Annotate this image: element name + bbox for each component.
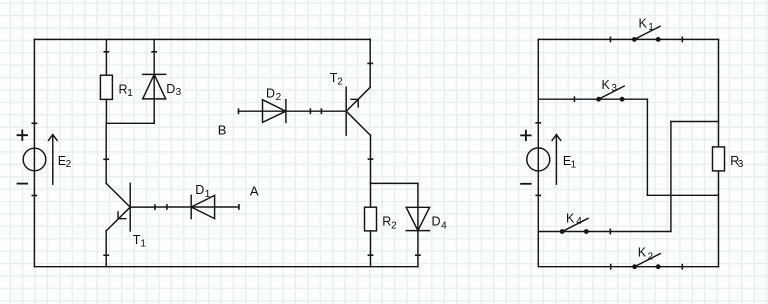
node A	[239, 184, 259, 209]
transistor T2	[330, 63, 373, 159]
resistor R2	[365, 207, 398, 231]
svg-text:4: 4	[441, 220, 447, 231]
svg-text:2: 2	[276, 92, 282, 103]
svg-text:1: 1	[648, 22, 654, 33]
wire T2 collector down	[370, 135, 372, 183]
wire D4 branch	[417, 183, 419, 266]
svg-text:K: K	[602, 78, 611, 92]
diode D1	[191, 183, 214, 218]
wire K4 right up	[670, 122, 672, 232]
wire junction R1-D3	[106, 122, 154, 124]
svg-text:2: 2	[391, 220, 397, 231]
resistor R1	[100, 52, 133, 100]
svg-text:2: 2	[337, 76, 343, 87]
svg-text:A: A	[250, 184, 259, 199]
svg-text:1: 1	[140, 238, 146, 249]
switch K4	[560, 211, 611, 234]
wire right circuit left side	[537, 39, 539, 266]
wire R1 bottom to junction	[105, 99, 107, 123]
svg-text:D: D	[432, 215, 441, 229]
resistor R3	[713, 147, 744, 171]
voltage source E1	[521, 123, 577, 196]
diode D4	[406, 207, 447, 231]
wire K3 row	[538, 98, 647, 100]
wire T2 emitter to top rail	[369, 39, 371, 87]
svg-text:D: D	[195, 183, 204, 197]
diode D2	[263, 87, 286, 123]
svg-text:1: 1	[127, 88, 133, 99]
wire right circuit bottom rail	[538, 266, 718, 268]
wire left circuit top rail	[34, 38, 370, 40]
wire D3 branch	[153, 39, 155, 123]
svg-text:3: 3	[611, 83, 617, 94]
wire right circuit right side bottom	[718, 171, 720, 267]
wire R2 top	[370, 183, 372, 207]
svg-text:D: D	[266, 87, 275, 101]
svg-text:3: 3	[176, 87, 182, 98]
svg-text:3: 3	[738, 159, 744, 170]
wire K4 row	[538, 231, 671, 233]
wire R1 branch top	[105, 39, 107, 75]
svg-text:K: K	[639, 16, 648, 30]
wire left circuit bottom rail	[34, 266, 418, 268]
svg-text:2: 2	[66, 159, 72, 170]
svg-text:R: R	[382, 215, 391, 229]
svg-text:2: 2	[648, 251, 654, 262]
wire T1 base to D1	[155, 206, 239, 208]
wire right circuit top rail	[538, 38, 718, 40]
svg-text:4: 4	[576, 216, 582, 227]
wire junction T2/R2 to D4	[371, 182, 418, 184]
svg-text:K: K	[566, 211, 575, 225]
node B	[218, 109, 239, 137]
wire K4 top row	[671, 121, 719, 123]
svg-text:D: D	[166, 82, 175, 96]
wire K3 right down	[646, 99, 648, 195]
wire node B to D2	[239, 110, 347, 112]
wire right circuit right side top	[718, 39, 720, 147]
svg-text:R: R	[119, 82, 128, 96]
svg-text:1: 1	[571, 159, 577, 170]
wire R3 bottom row	[647, 194, 718, 196]
wire left circuit left side	[33, 39, 35, 266]
svg-text:B: B	[218, 123, 227, 138]
wire T1 emitter to bottom rail	[105, 231, 107, 267]
switch K1	[611, 16, 683, 41]
svg-text:1: 1	[205, 189, 211, 200]
svg-text:K: K	[638, 246, 647, 260]
wire R2 bottom to rail	[370, 231, 372, 267]
switch K3	[574, 78, 624, 102]
transistor T1	[104, 159, 155, 249]
diode D3	[143, 52, 182, 99]
switch K2	[611, 246, 683, 269]
wire junction down to T1 collector	[105, 123, 107, 183]
voltage source E2	[18, 123, 72, 195]
